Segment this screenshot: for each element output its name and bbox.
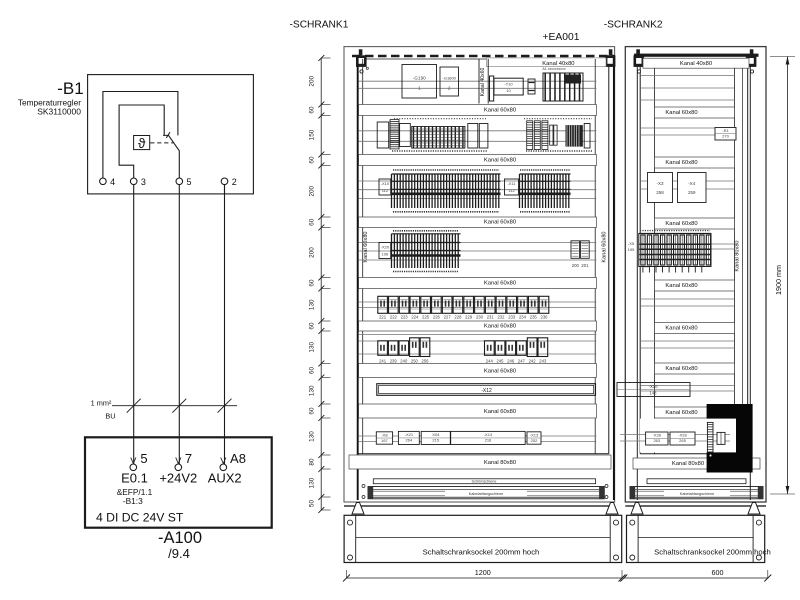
- svg-text:5: 5: [187, 177, 192, 187]
- cabinet 1 duct band 1 Kanal 60x80: [359, 105, 597, 116]
- svg-text:AUX2: AUX2: [208, 471, 242, 486]
- tiny fastener circle: [709, 454, 712, 457]
- cabinet 1 plinth Schaltschranksockel: [344, 515, 622, 562]
- component T-rail part: [490, 76, 494, 101]
- svg-text:-B1: -B1: [57, 79, 83, 98]
- cabinet 2 duct band E Kanal 60x80: [655, 323, 735, 334]
- svg-text:250: 250: [411, 359, 419, 364]
- svg-text:130: 130: [309, 341, 316, 352]
- svg-text:Kanal 60x80: Kanal 60x80: [484, 157, 516, 163]
- svg-text:195: 195: [628, 247, 635, 252]
- svg-text:Kanal 60x80: Kanal 60x80: [665, 221, 697, 227]
- svg-text:247: 247: [518, 359, 526, 364]
- temperature controller B1 outline box: [88, 75, 254, 194]
- svg-text:-X12: -X12: [481, 388, 492, 394]
- svg-text:-R1: -R1: [722, 128, 729, 133]
- svg-text:Kanal 40x60: Kanal 40x60: [480, 67, 486, 96]
- svg-text:246: 246: [507, 359, 515, 364]
- svg-text:Kabelabfangschiene: Kabelabfangschiene: [680, 492, 714, 496]
- svg-text:-X14: -X14: [484, 432, 493, 437]
- svg-text:+24V2: +24V2: [159, 471, 197, 486]
- wire terminal4 loop: [103, 92, 178, 179]
- svg-text:225: 225: [422, 315, 430, 320]
- cabinet 2 row D rails: [640, 244, 734, 249]
- svg-text:200: 200: [572, 263, 580, 268]
- cabinet 2 duct band D Kanal 60x80: [655, 280, 735, 291]
- svg-text:201: 201: [581, 263, 589, 268]
- svg-text:236: 236: [541, 315, 549, 320]
- wire terminal2 stub: [224, 185, 226, 194]
- cabinet 2 row C rails: [640, 181, 734, 189]
- svg-text:232: 232: [497, 315, 505, 320]
- device row2 right box: [584, 124, 590, 149]
- row 2 dark block: [566, 125, 583, 147]
- svg-text:4: 4: [110, 177, 115, 187]
- svg-text:-A100: -A100: [158, 529, 202, 547]
- row 6 right relay group: [485, 341, 495, 356]
- cabinet 2 top corner bracket right: [746, 55, 757, 67]
- cabinet 1 row 1 rails: [359, 81, 597, 88]
- cabinet 1 duct band 3 Kanal 60x80: [359, 217, 597, 228]
- svg-text:60: 60: [309, 156, 316, 164]
- svg-text:10: 10: [506, 88, 511, 93]
- device row2 left box: [377, 122, 389, 148]
- svg-text:Kanal 80x80: Kanal 80x80: [484, 460, 516, 466]
- svg-text:Kanal 60x80: Kanal 60x80: [602, 231, 608, 262]
- svg-text:Schaltschranksockel 200mm hoch: Schaltschranksockel 200mm hoch: [654, 548, 771, 557]
- cabinet 2 duct band G Kanal 60x80: [655, 407, 735, 418]
- shield rail Schirmschiene: [373, 479, 595, 484]
- svg-text:Schaltschranksockel 200mm hoch: Schaltschranksockel 200mm hoch: [423, 548, 540, 557]
- svg-text:216: 216: [485, 437, 492, 442]
- svg-text:243: 243: [539, 359, 547, 364]
- relays 200 201: [571, 241, 580, 258]
- cabinet 2 row A rails: [640, 76, 734, 101]
- svg-text:-X20: -X20: [381, 245, 390, 250]
- svg-text:226: 226: [433, 315, 441, 320]
- terminal box X28 265: [670, 432, 695, 445]
- terminal strip label X20: [379, 243, 391, 259]
- wire arrowheads at A100 terminals: [131, 458, 136, 464]
- svg-text:-G1600: -G1600: [443, 76, 457, 81]
- svg-text:264: 264: [406, 437, 413, 442]
- wire from B1:3 to A100:5: [133, 185, 135, 464]
- svg-text:-X8: -X8: [381, 432, 388, 437]
- svg-text:Kanal 60x80: Kanal 60x80: [665, 283, 697, 289]
- cabinet 2 duct band A Kanal 60x80: [655, 107, 735, 118]
- switch blade contact: [169, 136, 180, 178]
- svg-text:Kanal 60x80: Kanal 60x80: [484, 220, 516, 226]
- row 2 terminal strip comb: [412, 127, 465, 149]
- terminal strip label X11: [505, 179, 519, 195]
- svg-text:244: 244: [486, 359, 494, 364]
- svg-text:-G190: -G190: [413, 76, 426, 81]
- svg-text:222: 222: [390, 315, 398, 320]
- cabinet 2 top bar: [634, 54, 759, 57]
- row 6 left relay group: [378, 341, 388, 356]
- terminal 2 of B1: [221, 178, 228, 185]
- svg-text:Kanal 60x80: Kanal 60x80: [665, 160, 697, 166]
- svg-text:ϑ: ϑ: [138, 136, 146, 151]
- svg-text:130: 130: [309, 299, 316, 310]
- row 3 terminal strip comb right: [520, 174, 569, 208]
- cabinet 1 vertical duct Kanal 40x60: [478, 59, 480, 104]
- terminal box X26 263: [646, 432, 668, 445]
- terminal 5 of B1: [176, 178, 183, 185]
- svg-text:-X13: -X13: [530, 432, 539, 437]
- controller A1 hatched block: [543, 73, 583, 101]
- cabinet 2 mounting plate: [636, 55, 638, 500]
- svg-text:Kabelabfangschiene: Kabelabfangschiene: [469, 492, 503, 496]
- cabinet 2 row G rails: [640, 386, 734, 392]
- row 4 terminal strip comb: [392, 234, 459, 268]
- resistor R1 270: [715, 128, 736, 141]
- svg-text:112: 112: [382, 188, 389, 193]
- svg-text:148: 148: [650, 390, 658, 395]
- small terminal tower: [707, 422, 713, 452]
- svg-text:60: 60: [309, 279, 316, 287]
- dimension 1200: [347, 577, 623, 579]
- terminal strip X10 148 long box: [617, 383, 690, 397]
- svg-text:/9.4: /9.4: [168, 546, 190, 561]
- cabinet 2 row B rails: [640, 128, 734, 135]
- I/O card A100 outline box: [85, 437, 272, 527]
- svg-text:1 mm²: 1 mm²: [91, 399, 112, 408]
- svg-text:1200: 1200: [475, 568, 491, 577]
- svg-text:SK3110000: SK3110000: [37, 107, 81, 117]
- cabinet 1 top corner bracket right: [605, 55, 616, 67]
- terminal box X04 215: [421, 431, 450, 444]
- svg-text:-X4: -X4: [688, 181, 696, 186]
- svg-text:235: 235: [530, 315, 538, 320]
- svg-text:130: 130: [309, 477, 316, 488]
- fixed contact tick: [163, 134, 169, 136]
- cabinet 2 right vertical duct Kanal 80x80: [734, 68, 736, 454]
- svg-text:265: 265: [679, 438, 686, 443]
- svg-text:4 DI DC 24V ST: 4 DI DC 24V ST: [96, 511, 184, 525]
- terminal box X14 216: [451, 431, 526, 444]
- svg-text:229: 229: [465, 315, 473, 320]
- dashed actuator link: [150, 142, 173, 144]
- svg-text:E0.1: E0.1: [121, 471, 148, 486]
- svg-text:-X10: -X10: [649, 384, 659, 389]
- cabinet 1 row 4 rails: [359, 243, 597, 261]
- svg-text:+EA001: +EA001: [543, 32, 580, 43]
- black filled duct region: [707, 404, 753, 473]
- device row2 box 3: [468, 124, 478, 149]
- cabinet 2 strain relief rail Kabelabfangschiene: [630, 487, 763, 499]
- white component island row H: [640, 419, 736, 453]
- svg-text:245: 245: [497, 359, 505, 364]
- cabinet 1 left vertical duct Kanal 60x80: [362, 59, 364, 454]
- cabinet 2 duct band B Kanal 60x80: [655, 157, 735, 168]
- power supply G1600: [440, 67, 459, 96]
- cabinet 2 terminal strip X5 comb: [639, 234, 711, 267]
- svg-text:106: 106: [382, 252, 389, 257]
- row 2 tiny labels: [392, 150, 488, 152]
- svg-text:241: 241: [379, 359, 387, 364]
- cabinet 2 plinth Schaltschranksockel: [627, 515, 765, 562]
- terminal 3 of B1: [130, 178, 137, 185]
- svg-text:239: 239: [390, 359, 398, 364]
- svg-text:234: 234: [519, 315, 527, 320]
- terminal circle of A100: [220, 464, 227, 471]
- cabinet 2 bottom duct Kanal 80x80: [633, 458, 760, 469]
- cabinet 2 top corner bracket left: [634, 55, 645, 67]
- cabinet 1 row 2 rails: [359, 131, 597, 142]
- cabinet 2 top duct Kanal 40x80: [643, 58, 749, 68]
- svg-text:1900 mm: 1900 mm: [774, 265, 783, 295]
- wire terminal3 sensor loop: [119, 105, 164, 178]
- cabinet 1 feet: [352, 503, 364, 515]
- svg-text:600: 600: [712, 568, 724, 577]
- cabinet 2 feet: [631, 503, 643, 515]
- cabinet 1 row 6 rails: [359, 335, 597, 355]
- terminal circle of A100: [175, 464, 182, 471]
- svg-text:231: 231: [487, 315, 495, 320]
- cabinet 1 row 5 rails: [359, 302, 597, 308]
- svg-text:200: 200: [309, 185, 316, 196]
- svg-text:-X28: -X28: [678, 433, 687, 438]
- svg-text:Kanal 60x80: Kanal 60x80: [363, 231, 369, 262]
- svg-text:Kanal 40x80: Kanal 40x80: [680, 61, 712, 67]
- svg-text:60: 60: [309, 218, 316, 226]
- svg-text:258: 258: [656, 190, 664, 195]
- cabinet 2 enclosure outer frame: [625, 47, 766, 502]
- cabinet 1 top duct label Kanal 40x80: [487, 58, 607, 67]
- cabinet 1 duct band 7 Kanal 60x80: [359, 404, 597, 418]
- svg-text:-X21: -X21: [405, 432, 414, 437]
- svg-text:3: 3: [141, 177, 146, 187]
- cabinet 1 duct band 2 Kanal 60x80: [359, 155, 597, 166]
- cabinet 2 shield rail: [647, 479, 746, 484]
- power supply G190: [402, 65, 437, 99]
- wire from B1:5 to A100:7: [178, 185, 180, 464]
- svg-text:Kanal 60x80: Kanal 60x80: [665, 110, 697, 116]
- terminal 4 of B1: [100, 178, 107, 185]
- svg-text:256: 256: [422, 359, 430, 364]
- device row2 box 2: [400, 124, 411, 147]
- cabinet 1 top corner bracket left: [356, 55, 367, 67]
- cabinet 1 base corner fittings: [362, 485, 365, 488]
- cabinet 2 duct band F Kanal 60x80: [655, 363, 735, 374]
- svg-text:200: 200: [309, 75, 316, 86]
- svg-text:A8: A8: [230, 451, 246, 466]
- cabinet 2 row E rails: [640, 299, 734, 306]
- strain relief rail Kabelabfangschiene: [368, 487, 604, 499]
- cabinet 1 top duct dashed bar: [352, 55, 614, 58]
- row 2 right striped bars group: [527, 121, 533, 150]
- svg-text:Kanal 60x80: Kanal 60x80: [665, 366, 697, 372]
- svg-text:X04: X04: [432, 432, 440, 437]
- svg-text:2: 2: [232, 177, 237, 187]
- svg-text:Kanal 80x80: Kanal 80x80: [672, 461, 704, 467]
- svg-text:-X26: -X26: [653, 433, 662, 438]
- cabinet 2 duct band C Kanal 60x80: [655, 218, 735, 229]
- row 3 terminal strip comb left: [392, 174, 499, 208]
- svg-text:Kanal 60x80: Kanal 60x80: [484, 323, 516, 329]
- svg-text:Kanal 60x80: Kanal 60x80: [484, 280, 516, 286]
- svg-text:60: 60: [309, 407, 316, 415]
- svg-text:233: 233: [508, 315, 516, 320]
- terminal circle of A100: [130, 464, 137, 471]
- svg-text:Kanal 60x80: Kanal 60x80: [484, 368, 516, 374]
- cabinet 1 mounting plate: [357, 55, 359, 500]
- svg-text:7: 7: [185, 451, 192, 466]
- cabinet 2 left vertical duct Kanal 60x80: [654, 68, 656, 454]
- svg-text:60: 60: [309, 322, 316, 330]
- svg-text:Schirmschiene: Schirmschiene: [472, 480, 497, 484]
- svg-text:Kanal 60x80: Kanal 60x80: [484, 107, 516, 113]
- cabinet 1 duct band 5 Kanal 60x80: [359, 321, 597, 331]
- svg-text:112: 112: [508, 188, 515, 193]
- svg-text:-X3: -X3: [656, 181, 664, 186]
- small component box: [717, 432, 725, 444]
- svg-text:60: 60: [309, 106, 316, 114]
- svg-text:230: 230: [476, 315, 484, 320]
- svg-text:167: 167: [381, 438, 388, 443]
- svg-text:221: 221: [379, 315, 387, 320]
- dimension 1900 mm: [787, 57, 789, 495]
- svg-text:270: 270: [722, 134, 729, 139]
- svg-text:223: 223: [401, 315, 409, 320]
- thermostat sensor box: [134, 136, 150, 150]
- cabinet 1 row 3 rails: [359, 181, 597, 199]
- svg-text:-SCHRANK2: -SCHRANK2: [604, 20, 663, 31]
- svg-text:-SCHRANK1: -SCHRANK1: [290, 20, 349, 31]
- cabinet 1 bottom duct Kanal 80x80: [349, 455, 611, 469]
- svg-text:A1 xxxxxxxxxx: A1 xxxxxxxxxx: [542, 67, 566, 71]
- terminal strip X12 long box: [377, 384, 596, 396]
- svg-text:-B1:3: -B1:3: [123, 496, 143, 506]
- svg-text:Kanal 60x80: Kanal 60x80: [484, 409, 516, 415]
- device row2 box 4: [479, 124, 488, 149]
- terminal box X4 259: [678, 173, 707, 203]
- dimension 600: [624, 577, 768, 579]
- svg-text:224: 224: [411, 315, 419, 320]
- svg-text:-X11: -X11: [507, 181, 516, 186]
- wire from B1:2 to A100:A8: [224, 185, 226, 464]
- terminal strip label X10: [379, 179, 391, 195]
- svg-text:5: 5: [140, 451, 147, 466]
- svg-text:Kanal 80x80: Kanal 80x80: [735, 240, 741, 271]
- svg-text:252: 252: [531, 438, 538, 443]
- svg-text:Kanal 60x80: Kanal 60x80: [665, 325, 697, 331]
- row 5 sixteen relay modules 221-236: [378, 296, 388, 313]
- svg-text:-X5: -X5: [628, 241, 635, 246]
- cabinet 1 duct band 4 Kanal 60x80: [359, 278, 597, 289]
- svg-text:130: 130: [309, 431, 316, 442]
- svg-text:263: 263: [653, 438, 660, 443]
- svg-text:259: 259: [688, 190, 696, 195]
- svg-text:150: 150: [309, 129, 316, 140]
- terminal box X8 167: [376, 432, 392, 444]
- svg-text:227: 227: [444, 315, 452, 320]
- svg-text:BU: BU: [105, 411, 115, 420]
- svg-text:60: 60: [309, 367, 316, 375]
- svg-text:240: 240: [400, 359, 408, 364]
- transformer T10: [494, 78, 523, 95]
- cabinet 1 height dimension chain: [320, 58, 322, 511]
- svg-text:130: 130: [309, 385, 316, 396]
- small relay component: [528, 79, 535, 94]
- cabinet 2 row H rails: [620, 434, 730, 441]
- terminal box X3 258: [648, 173, 673, 203]
- cabinet 1 row 8 rails: [359, 436, 597, 442]
- terminal box X13 252: [527, 432, 541, 444]
- svg-text:Kanal 60x80: Kanal 60x80: [665, 410, 697, 416]
- cabinet 1 enclosure outer frame: [344, 47, 615, 502]
- svg-text:-X10: -X10: [381, 181, 390, 186]
- svg-text:215: 215: [432, 437, 439, 442]
- cable designation line 1mm2 BU: [112, 405, 237, 407]
- svg-text:242: 242: [529, 359, 537, 364]
- svg-text:50: 50: [309, 500, 316, 508]
- cabinet 1 duct band 6 Kanal 60x80: [359, 364, 597, 378]
- cabinet 2 row F rails: [640, 341, 734, 348]
- terminal box X21 264: [398, 431, 419, 444]
- svg-text:228: 228: [454, 315, 462, 320]
- svg-text:200: 200: [309, 247, 316, 258]
- svg-text:80: 80: [309, 458, 316, 466]
- terminal tower hatch: [390, 120, 399, 149]
- cabinet 1 right vertical duct Kanal 60x80: [594, 59, 596, 454]
- svg-text:-T10: -T10: [504, 82, 513, 87]
